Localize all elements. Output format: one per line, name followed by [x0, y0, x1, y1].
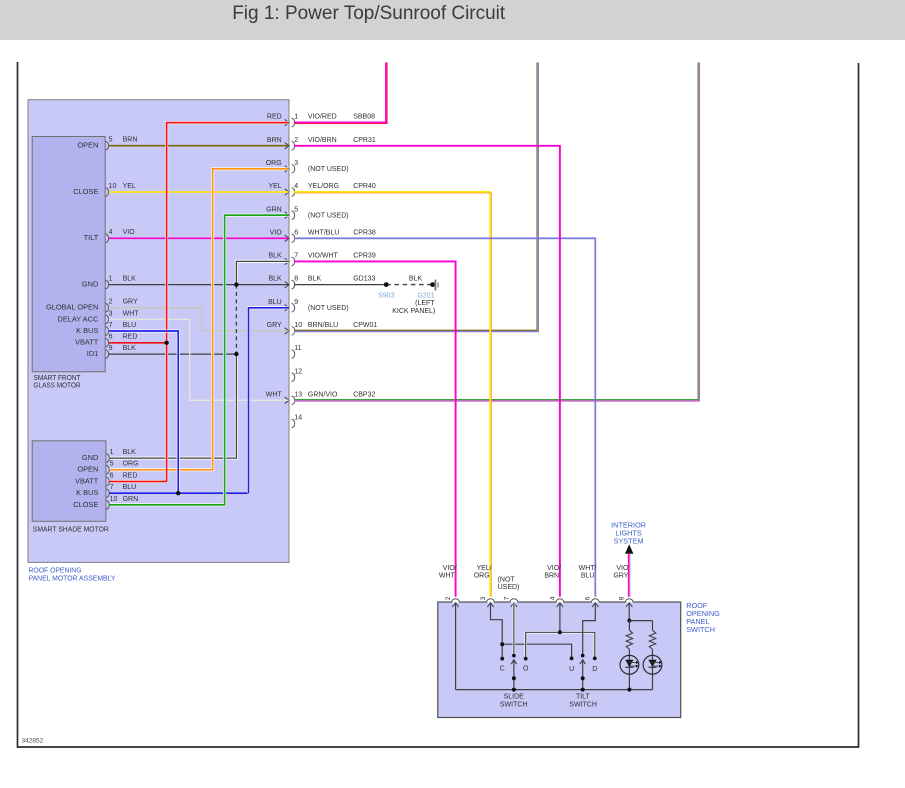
- svg-text:VIO/WHT: VIO/WHT: [308, 253, 339, 260]
- svg-text:CLOSE: CLOSE: [73, 187, 98, 196]
- svg-text:K BUS: K BUS: [76, 326, 98, 335]
- wire BLK GD133: pin 8 to splice S903: [294, 284, 386, 286]
- svg-text:K BUS: K BUS: [76, 488, 98, 497]
- svg-text:USED): USED): [498, 584, 520, 591]
- svg-text:RED: RED: [123, 472, 138, 479]
- svg-text:D: D: [592, 666, 597, 673]
- arrow to interior lights system: [625, 544, 633, 554]
- wire BLK: splice to shade GND: [110, 354, 237, 458]
- frame left border: [17, 62, 19, 747]
- switch pin 7: [503, 596, 517, 607]
- svg-text:10: 10: [294, 322, 302, 329]
- svg-text:SWITCH: SWITCH: [500, 702, 528, 709]
- wire VIO/GRY: switch pin 8 up to interior lights: [628, 554, 630, 597]
- svg-text:2: 2: [109, 299, 113, 306]
- svg-text:GRN: GRN: [123, 496, 139, 503]
- resistor R left: [628, 621, 630, 631]
- svg-text:WHT/BLU: WHT/BLU: [308, 229, 340, 236]
- LED lamp left: [628, 649, 630, 689]
- svg-text:TILT: TILT: [576, 693, 591, 700]
- svg-text:BLK: BLK: [409, 275, 423, 282]
- svg-text:1: 1: [110, 449, 114, 456]
- svg-text:2: 2: [294, 137, 298, 144]
- svg-text:6: 6: [585, 596, 592, 600]
- svg-text:GND: GND: [82, 453, 98, 462]
- svg-text:GLOBAL OPEN: GLOBAL OPEN: [46, 303, 98, 312]
- svg-text:6: 6: [110, 472, 114, 479]
- wire GRN: shade CLOSE to pin 5: [110, 215, 289, 505]
- svg-text:O: O: [523, 666, 529, 673]
- svg-text:Fig 1: Power Top/Sunroof Circu: Fig 1: Power Top/Sunroof Circuit: [232, 2, 506, 24]
- main connector pin 8 (BLK GD133): [268, 276, 375, 289]
- svg-text:13: 13: [294, 391, 302, 398]
- branch wire to right lamp: [629, 620, 652, 622]
- svg-text:WHT: WHT: [266, 391, 283, 398]
- main connector pin 4 (YEL/ORG CPR40): [268, 183, 375, 196]
- svg-text:342852: 342852: [22, 738, 44, 745]
- junction dot on C branch: [500, 642, 504, 646]
- svg-text:5: 5: [109, 137, 113, 144]
- svg-text:8: 8: [294, 276, 298, 283]
- shade motor pin 6 VBATT (RED): [75, 472, 137, 485]
- svg-text:2: 2: [445, 596, 452, 600]
- svg-text:8: 8: [619, 596, 626, 600]
- svg-text:SWITCH: SWITCH: [686, 625, 715, 634]
- svg-text:3: 3: [480, 596, 487, 600]
- svg-text:BLK: BLK: [123, 345, 137, 352]
- front motor pin 7 K BUS (BLU): [76, 322, 136, 335]
- svg-text:14: 14: [294, 415, 302, 422]
- svg-text:BLK: BLK: [123, 449, 137, 456]
- svg-text:(NOT USED): (NOT USED): [308, 166, 349, 173]
- wire GRY: front GLOBAL OPEN to pin 10: [109, 308, 289, 331]
- front motor pin 10 CLOSE (YEL): [73, 183, 136, 196]
- svg-text:BLK: BLK: [123, 276, 137, 283]
- svg-text:VIO/: VIO/: [443, 565, 457, 572]
- slide switch wiper: [511, 654, 516, 690]
- svg-text:VBATT: VBATT: [75, 338, 99, 347]
- main connector pin 11: [292, 345, 302, 358]
- shade motor pin 7 K BUS (BLU): [76, 484, 136, 497]
- wire YEL/ORG CPR40: pin 4 down to switch pin 3: [294, 192, 490, 597]
- wire BRN: front OPEN to pin 2: [109, 145, 289, 147]
- front motor pin 3 DELAY ACC (WHT): [57, 310, 139, 323]
- svg-text:YEL: YEL: [123, 183, 136, 190]
- svg-text:9: 9: [109, 345, 113, 352]
- front motor pin 4 TILT (VIO): [84, 229, 136, 242]
- junction dot VBATT red: [164, 341, 168, 345]
- wire BLK dashed splice S-section: [235, 285, 237, 355]
- svg-text:S903: S903: [378, 292, 394, 299]
- label (NOT USED) above switch pin 7: [498, 576, 520, 590]
- svg-text:TILT: TILT: [84, 233, 99, 242]
- svg-text:BLU: BLU: [581, 572, 595, 579]
- svg-text:GLASS MOTOR: GLASS MOTOR: [34, 380, 81, 389]
- junction dot shade K BUS: [176, 491, 180, 495]
- svg-text:(LEFT: (LEFT: [415, 300, 435, 307]
- rail junction dot slide: [512, 688, 516, 692]
- svg-text:(NOT USED): (NOT USED): [308, 305, 349, 312]
- svg-text:BRN: BRN: [544, 572, 559, 579]
- svg-text:SLIDE: SLIDE: [504, 693, 525, 700]
- svg-text:SBB08: SBB08: [353, 114, 375, 121]
- tilt contact U dot: [570, 657, 574, 661]
- svg-text:7: 7: [503, 596, 510, 600]
- switch pin 6: [579, 565, 599, 607]
- roof opening panel switch box: [438, 602, 681, 718]
- resistor R right: [652, 621, 654, 631]
- roof opening panel motor assembly box: [28, 100, 289, 563]
- main connector pin 13 (GRN/VIO CBP32): [266, 391, 376, 404]
- switch internal wire: pin 4 down: [559, 603, 561, 633]
- svg-text:(NOT: (NOT: [498, 576, 516, 583]
- svg-text:ORG: ORG: [266, 160, 282, 167]
- svg-text:GND: GND: [82, 280, 98, 289]
- wire YEL: front CLOSE to pin 4: [109, 191, 289, 193]
- switch pin 2: [439, 565, 459, 607]
- svg-text:BLK: BLK: [268, 276, 282, 283]
- svg-text:BLK: BLK: [308, 276, 322, 283]
- front motor pin 6 VBATT (RED): [75, 334, 137, 347]
- frame right border: [858, 63, 860, 747]
- svg-text:BLU: BLU: [123, 484, 137, 491]
- svg-text:BRN/BLU: BRN/BLU: [308, 322, 338, 329]
- svg-text:4: 4: [549, 596, 556, 600]
- smart front glass motor box: [32, 137, 105, 372]
- svg-text:ID1: ID1: [87, 349, 99, 358]
- svg-text:RED: RED: [267, 114, 282, 121]
- front motor pin 1 GND (BLK): [82, 276, 136, 289]
- wire BLU: shade K BUS up to pin 9: [249, 308, 289, 493]
- svg-text:7: 7: [110, 484, 114, 491]
- frame bottom border: [17, 746, 860, 748]
- main connector pin 3: [266, 160, 349, 173]
- shade motor pin 10 CLOSE (GRN): [73, 496, 138, 509]
- svg-text:GRY: GRY: [123, 299, 138, 306]
- svg-text:WHT: WHT: [439, 572, 456, 579]
- title bar: [0, 0, 905, 40]
- junction dot GND splice S? top: [234, 282, 238, 286]
- switch pin 4: [544, 565, 563, 607]
- svg-text:CPR40: CPR40: [353, 183, 376, 190]
- svg-text:CPR38: CPR38: [353, 229, 376, 236]
- main connector pin 5: [266, 206, 348, 219]
- svg-text:9: 9: [294, 299, 298, 306]
- svg-text:CLOSE: CLOSE: [73, 500, 98, 509]
- switch pin 3: [474, 565, 494, 607]
- rail junction dot lamp: [627, 688, 631, 692]
- svg-text:SMART SHADE MOTOR: SMART SHADE MOTOR: [33, 524, 109, 533]
- ground dot G201: [430, 282, 435, 287]
- svg-text:GD133: GD133: [353, 276, 375, 283]
- junction dot pin 4 to O-D link: [558, 630, 562, 634]
- svg-text:WHT: WHT: [123, 310, 140, 317]
- front motor pin 2 GLOBAL OPEN (GRY): [46, 299, 138, 312]
- svg-text:5: 5: [294, 206, 298, 213]
- wire BRN/BLU CPW01: pin 10 up to top: [294, 63, 537, 331]
- svg-text:VIO: VIO: [123, 229, 136, 236]
- label interior lights system: [611, 520, 646, 545]
- wire VIO/BRN CPR31: pin 2 down to switch pin 4: [294, 146, 560, 597]
- svg-text:RED: RED: [123, 334, 138, 341]
- svg-text:4: 4: [294, 183, 298, 190]
- ground symbol G201 bars: [434, 280, 436, 291]
- svg-text:GRY: GRY: [613, 572, 628, 579]
- svg-text:WHT/: WHT/: [579, 565, 597, 572]
- svg-text:CPW01: CPW01: [353, 322, 377, 329]
- switch internal wire: pin 6 jog to tilt wiper: [583, 603, 596, 656]
- slide contact C dot: [500, 657, 504, 661]
- wire BLU: shade K BUS row: [110, 492, 249, 494]
- svg-text:GRN/VIO: GRN/VIO: [308, 391, 338, 398]
- switch internal wire: O-D link via pin 4: [526, 632, 595, 658]
- svg-text:BLK: BLK: [268, 253, 282, 260]
- svg-text:YEL: YEL: [268, 183, 281, 190]
- switch pin 8: [613, 565, 633, 607]
- main connector pin 6 (WHT/BLU CPR38): [270, 229, 376, 242]
- svg-text:GRN: GRN: [266, 206, 282, 213]
- wire WHT: front DELAY ACC to pin 13: [109, 319, 289, 400]
- label SLIDE SWITCH: [500, 693, 528, 708]
- svg-text:11: 11: [294, 345, 301, 352]
- switch internal wire: C to U link: [502, 644, 571, 658]
- svg-text:VIO/BRN: VIO/BRN: [308, 137, 337, 144]
- svg-text:BRN: BRN: [267, 137, 282, 144]
- main connector pin 9: [268, 299, 349, 312]
- svg-text:YEL/: YEL/: [477, 565, 492, 572]
- svg-text:7: 7: [109, 322, 113, 329]
- svg-text:CBP32: CBP32: [353, 391, 375, 398]
- junction dot pin 8 branch: [627, 619, 631, 623]
- wire BLK dashed: S903 to G201: [386, 284, 432, 286]
- svg-text:C: C: [500, 666, 505, 673]
- svg-text:KICK PANEL): KICK PANEL): [392, 308, 435, 315]
- svg-text:3: 3: [294, 160, 298, 167]
- svg-text:U: U: [569, 666, 574, 673]
- tilt switch wiper: [580, 654, 585, 690]
- front motor pin 9 ID1 (BLK): [87, 345, 136, 358]
- switch bottom rail: [456, 689, 653, 691]
- svg-text:PANEL MOTOR ASSEMBLY: PANEL MOTOR ASSEMBLY: [29, 573, 116, 582]
- front motor pin 5 OPEN (BRN): [77, 137, 137, 150]
- switch internal wire: pin 3 jog to contact C: [491, 603, 503, 659]
- svg-text:GRY: GRY: [267, 322, 282, 329]
- svg-text:ORG: ORG: [123, 461, 139, 468]
- svg-text:VIO: VIO: [270, 229, 283, 236]
- svg-text:OPEN: OPEN: [77, 465, 98, 474]
- svg-text:(NOT USED): (NOT USED): [308, 212, 349, 219]
- svg-text:SYSTEM: SYSTEM: [614, 536, 644, 545]
- svg-text:1: 1: [294, 114, 298, 121]
- svg-text:10: 10: [109, 183, 117, 190]
- svg-text:CPR39: CPR39: [353, 253, 376, 260]
- svg-text:DELAY ACC: DELAY ACC: [57, 314, 98, 323]
- wire RED: pin 1 / VBATT bus to shade VBATT: [110, 123, 289, 482]
- main connector pin 2 (VIO/BRN CPR31): [267, 137, 376, 150]
- svg-text:OPEN: OPEN: [77, 141, 98, 150]
- tilt contact D dot: [593, 657, 597, 661]
- svg-text:YEL/ORG: YEL/ORG: [308, 183, 339, 190]
- smart shade motor box: [32, 441, 106, 522]
- wire BLK: front ID1 to splice: [109, 353, 237, 355]
- switch internal wire: pin 8 down: [628, 603, 630, 621]
- wire BLK: front GND to pin 8: [109, 284, 289, 286]
- wire ORG: shade OPEN to pin 3: [110, 169, 289, 470]
- wire BLU: front K BUS down to shade K BUS: [109, 331, 178, 493]
- shade motor pin 1 GND (BLK): [82, 449, 136, 462]
- svg-text:CPR31: CPR31: [353, 137, 376, 144]
- svg-text:ORG: ORG: [474, 572, 490, 579]
- svg-text:VIO/: VIO/: [547, 565, 561, 572]
- wire VIO/RED SBB08: pin 1 up to top: [294, 63, 386, 123]
- svg-text:BLU: BLU: [123, 322, 137, 329]
- switch internal wire: pin 2 down to bottom rail: [455, 603, 457, 690]
- main connector pin 12: [292, 368, 303, 381]
- rail junction dot tilt: [581, 688, 585, 692]
- svg-text:1: 1: [109, 276, 113, 283]
- svg-text:3: 3: [109, 310, 113, 317]
- LED lamp right: [652, 649, 654, 689]
- svg-text:VBATT: VBATT: [75, 476, 99, 485]
- splice dot S903: [384, 282, 389, 287]
- wire BLK: pin 7 to GND splice: [236, 261, 288, 284]
- svg-text:BRN: BRN: [123, 137, 138, 144]
- svg-text:6: 6: [294, 229, 298, 236]
- svg-text:7: 7: [294, 253, 298, 260]
- svg-text:5: 5: [110, 461, 114, 468]
- wire WHT/BLU CPR38: pin 6 down to switch pin 6: [294, 238, 595, 597]
- main connector pin 7 (VIO/WHT CPR39): [268, 253, 375, 266]
- svg-text:12: 12: [294, 368, 302, 375]
- wire GRN/VIO CBP32: pin 13 up to top: [294, 63, 698, 400]
- shade motor pin 5 OPEN (ORG): [77, 461, 138, 474]
- slide contact O dot: [524, 657, 528, 661]
- wire VIO: front TILT to pin 6: [109, 237, 289, 239]
- svg-text:BLU: BLU: [268, 299, 282, 306]
- wire RED stub: front VBATT to junction: [109, 342, 167, 344]
- switch internal wire: pin 7 down to slide wiper: [513, 603, 515, 656]
- svg-text:SWITCH: SWITCH: [569, 702, 597, 709]
- svg-text:G201: G201: [417, 292, 434, 299]
- svg-text:4: 4: [109, 229, 113, 236]
- svg-text:10: 10: [110, 496, 118, 503]
- svg-text:VIO/RED: VIO/RED: [308, 114, 337, 121]
- wire VIO/WHT CPR39: pin 7 down to switch pin 2: [294, 261, 456, 596]
- junction dot ID1 splice bottom: [234, 352, 238, 356]
- svg-text:6: 6: [109, 334, 113, 341]
- label roof opening panel switch: [686, 601, 720, 634]
- main connector pin 10 (BRN/BLU CPW01): [267, 322, 378, 335]
- label TILT SWITCH: [569, 693, 597, 708]
- main connector pin 1 (VIO/RED SBB08): [267, 114, 375, 127]
- main connector pin 14: [292, 415, 303, 428]
